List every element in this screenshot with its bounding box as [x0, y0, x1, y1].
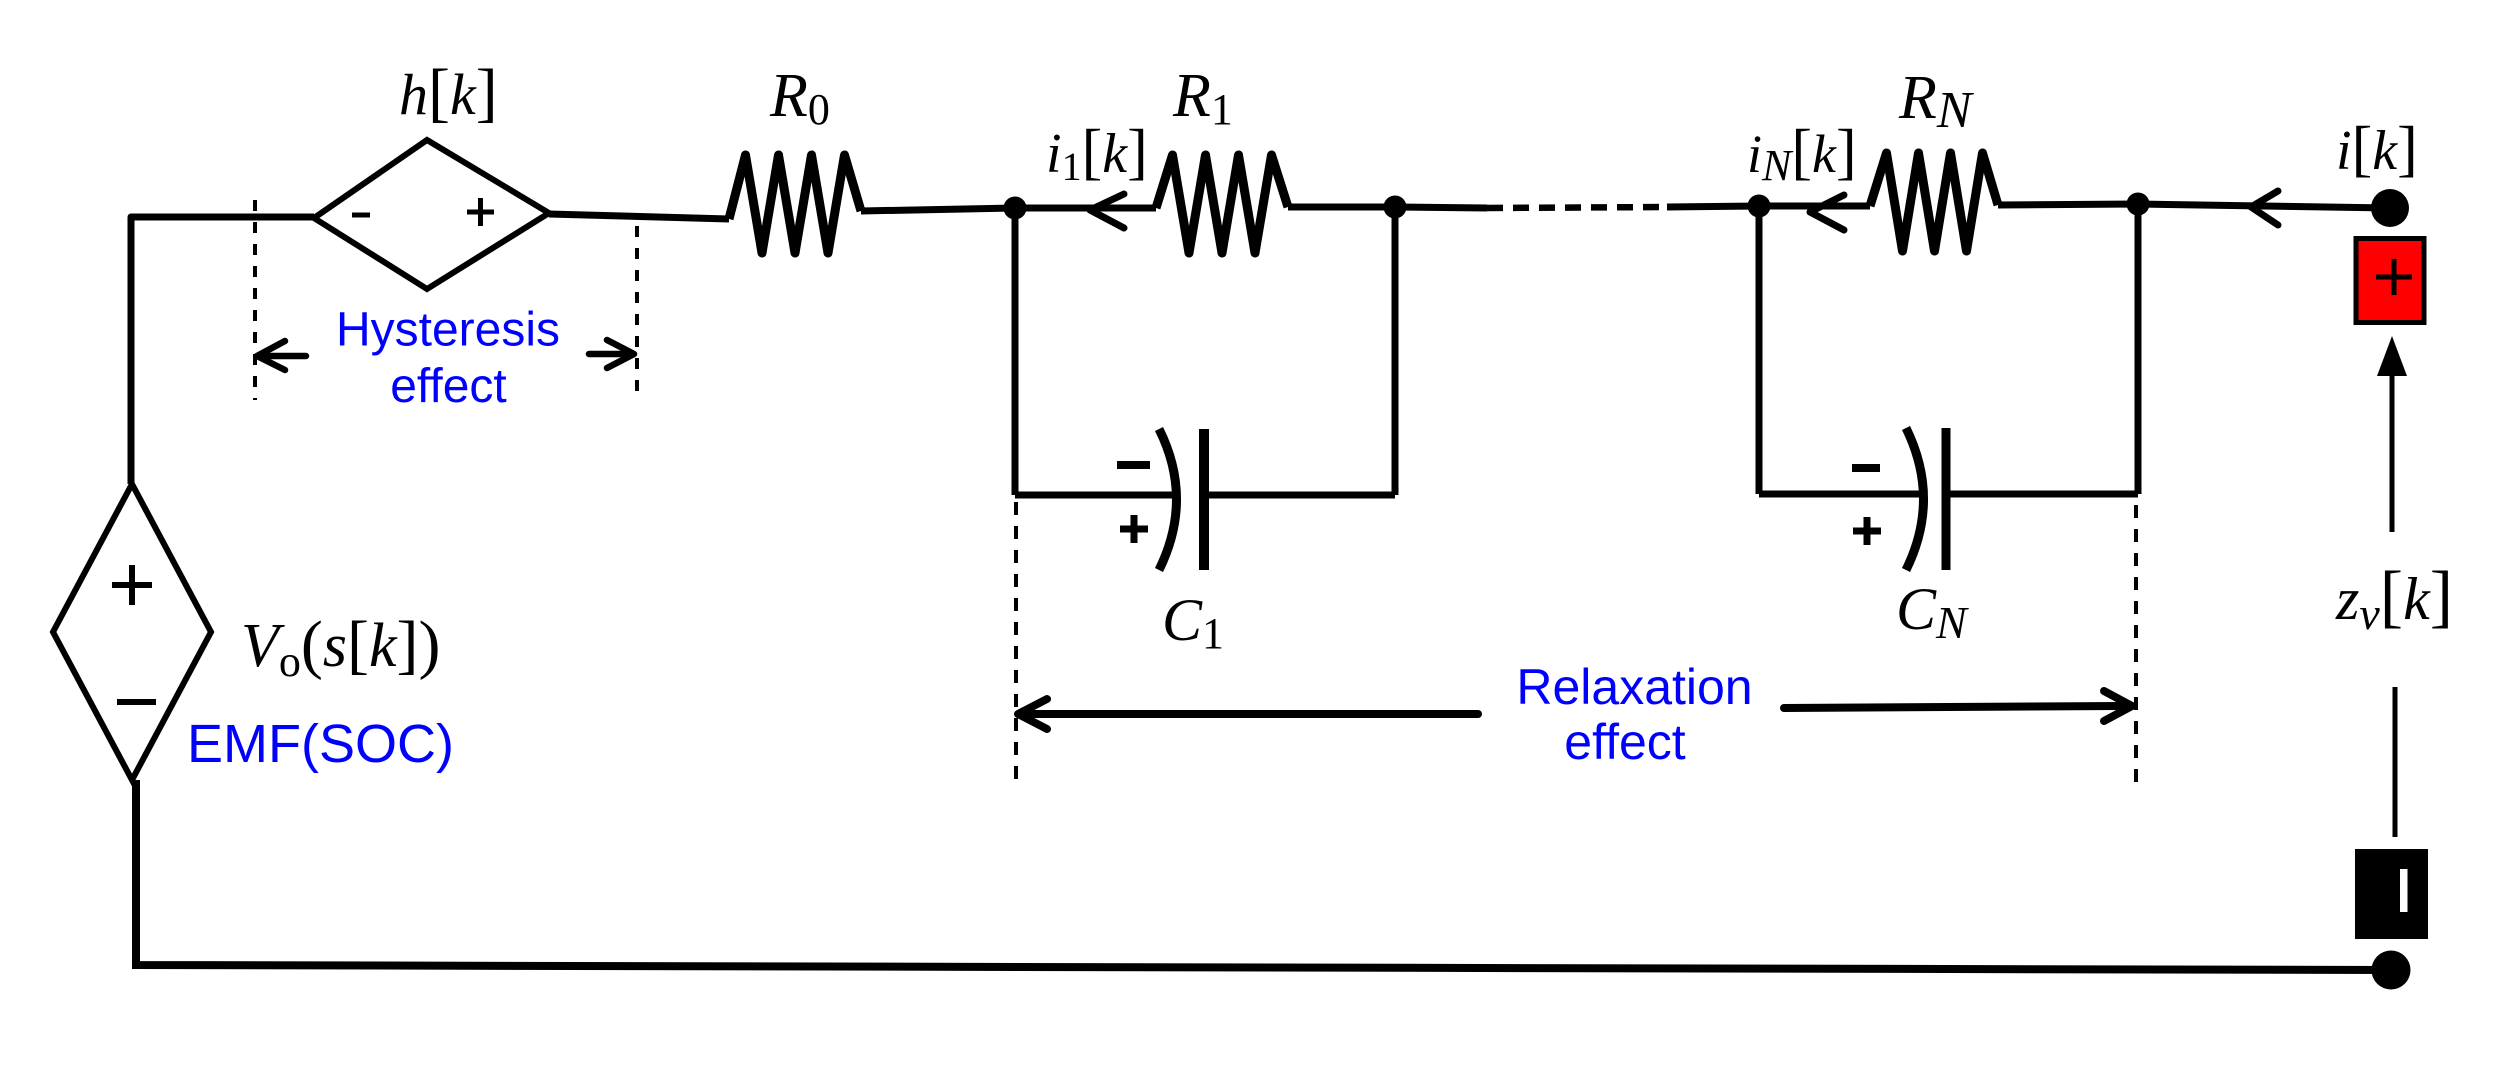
svg-text:i[k]: i[k]	[2336, 115, 2418, 183]
svg-text:effect: effect	[1564, 714, 1685, 770]
svg-text:effect: effect	[390, 360, 507, 413]
svg-text:Hysteresis: Hysteresis	[336, 304, 560, 357]
svg-text:h[k]: h[k]	[399, 56, 498, 129]
svg-text:i1[k]: i1[k]	[1046, 118, 1148, 189]
svg-text:EMF(SOC): EMF(SOC)	[187, 714, 454, 774]
svg-text:Relaxation: Relaxation	[1516, 659, 1752, 715]
svg-text:Vo(s[k]): Vo(s[k])	[241, 608, 440, 686]
svg-text:zv[k]: zv[k]	[2335, 558, 2453, 639]
